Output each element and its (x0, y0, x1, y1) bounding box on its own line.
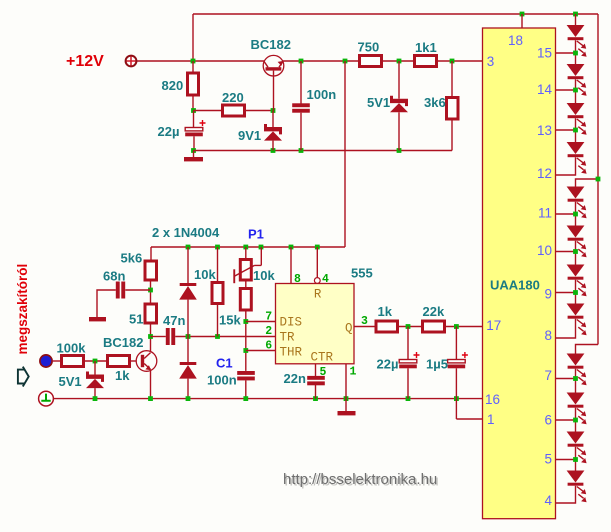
svg-text:1µ5: 1µ5 (426, 357, 448, 372)
wire node to C22u (193, 111, 195, 128)
wire UAA180 pin1 to ground rail (456, 399, 482, 419)
potentiometer P1 wiper arrow (234, 247, 261, 276)
svg-text:BC182: BC182 (103, 335, 143, 350)
svg-text:820: 820 (162, 78, 184, 93)
junction pin18 on top rail (520, 12, 525, 17)
svg-text:16: 16 (485, 392, 500, 407)
wire TR wire to D2 (187, 337, 189, 363)
wire D12 to D13 (575, 408, 577, 432)
svg-text:UAA180: UAA180 (490, 278, 540, 293)
wire top rail to UAA180 pin 18 (521, 14, 523, 28)
wire rail to LED D3 (575, 14, 577, 25)
wire D3 to D4 (575, 40, 577, 64)
wire to 1u5 (455, 327, 457, 360)
svg-text:R: R (314, 288, 322, 302)
wire pin 10 tap (556, 251, 576, 253)
wire to 22u out (407, 327, 409, 360)
wire top supply rail (193, 13, 598, 15)
wire node to ground bar (193, 151, 195, 158)
junction 5V1 bottom (397, 148, 402, 153)
svg-text:+12V: +12V (66, 53, 104, 70)
LED D4 (567, 64, 585, 76)
wire 9V1 to node (272, 141, 274, 151)
capacitor 47n (166, 328, 170, 345)
junction DIS tap (243, 319, 248, 324)
junction THR tap (243, 348, 248, 353)
junction 1u5 top (454, 324, 459, 329)
junction 22n ground (313, 396, 318, 401)
svg-text:5V1: 5V1 (367, 95, 390, 110)
LED D11 (567, 354, 585, 366)
transistor Q1 BC182 (263, 55, 284, 76)
LED D10 (567, 304, 585, 316)
svg-text:Q: Q (345, 322, 353, 336)
junction pin9 tap (573, 290, 578, 295)
junction 22u bottom node (191, 148, 196, 153)
junction 5V1 top (397, 59, 402, 64)
junction timing-rail drop (343, 59, 348, 64)
junction 555 pin4 (315, 245, 320, 250)
wire right rail feed group 3 (576, 345, 599, 354)
svg-text:14: 14 (537, 82, 553, 97)
wire +12V to transistor emitter (137, 60, 264, 62)
wire 68n to ground (97, 290, 116, 317)
svg-text:11: 11 (538, 206, 552, 221)
ground bar below 68n (89, 317, 106, 321)
LED D8 (567, 226, 585, 238)
wire pin 7 tap (556, 378, 576, 380)
wire 22u to ground rail (407, 368, 409, 398)
wire oscillator supply rail (151, 246, 345, 248)
resistor R1k3 1k output (376, 321, 398, 332)
wire D13 to D14 (575, 447, 577, 471)
junction 9V1 bottom (271, 148, 276, 153)
IC UAA180 body (483, 28, 556, 519)
svg-text:100n: 100n (307, 87, 337, 102)
wire left drop from top rail (192, 14, 194, 61)
wire 555 pin 5 to 22n (315, 364, 317, 377)
wire junction to 47n (151, 336, 166, 338)
wire rail to 555 pin 8 (290, 247, 292, 284)
svg-text:2 x 1N4004: 2 x 1N4004 (152, 225, 220, 240)
svg-text:17: 17 (486, 318, 501, 333)
junction pin6 tap (573, 418, 578, 423)
junction input clamp node (93, 359, 98, 364)
resistor R22k 22k (423, 321, 445, 332)
wire pin 6 tap (556, 419, 576, 421)
resistor R3k6 3k6 (447, 98, 459, 120)
junction P1 wiper tie (259, 245, 264, 250)
LED D5 (567, 103, 585, 115)
wire 5V1 to node (398, 112, 400, 150)
wire node to 9V1 (272, 111, 274, 128)
svg-text:10: 10 (537, 243, 552, 258)
junction R10k top (215, 245, 220, 250)
junction C1 ground (243, 396, 248, 401)
wire C22u to lower node (193, 136, 195, 150)
capacitor 22n (307, 376, 325, 380)
wire R1k to Q2 base (131, 360, 136, 362)
junction P1 top (243, 245, 248, 250)
svg-text:6: 6 (265, 340, 272, 353)
zener diode 5V1 bottom (86, 372, 104, 382)
junction 68n tap (148, 288, 153, 293)
capacitor 1u5 electrolytic (448, 360, 466, 363)
wire Q1 base down (273, 71, 275, 111)
svg-text:1k: 1k (115, 368, 130, 383)
diode D1 1N4004 (180, 283, 197, 286)
svg-text:C1: C1 (216, 356, 233, 371)
junction R10k bottom on TR wire (215, 334, 220, 339)
junction 555 pin1 ground (344, 396, 349, 401)
svg-text:9V1: 9V1 (238, 128, 261, 143)
wire 3k6 down to node 150 (451, 121, 453, 151)
LED D13 (567, 432, 585, 444)
LED D12 (567, 393, 585, 405)
wire pin 14 tap (556, 89, 576, 91)
svg-text:DIS: DIS (280, 316, 303, 330)
wire 555 Q out to R1k (354, 326, 375, 328)
zener diode 5V1 top (390, 96, 408, 106)
svg-text:1k: 1k (378, 304, 393, 319)
junction 100n bottom (299, 148, 304, 153)
junction right rail group2 feed (596, 177, 601, 182)
resistor R51 51 (145, 304, 157, 323)
wire rail to P1 (245, 247, 247, 258)
junction pin11 tap (573, 212, 578, 217)
resistor R15k 15k (240, 289, 251, 311)
wire pin 13 tap (556, 129, 576, 131)
LED D14 (567, 471, 585, 483)
555 pin4 inversion circle (314, 278, 320, 284)
svg-text:2: 2 (265, 325, 272, 338)
svg-text:22µ: 22µ (377, 357, 399, 372)
wire input terminal to R100k (52, 360, 60, 362)
capacitor 68n (116, 282, 120, 299)
svg-text:750: 750 (358, 40, 380, 55)
wire node to 5V1 bottom (94, 361, 96, 375)
wire rail to 555 pin 4 (316, 247, 318, 278)
wire R5k6 to R51 (150, 282, 152, 303)
svg-text:7: 7 (265, 311, 272, 324)
wire D6 to pin 12 (556, 157, 576, 175)
LED D7 (567, 187, 585, 199)
junction R51/47n/collector (148, 334, 153, 339)
svg-text:18: 18 (508, 33, 523, 48)
svg-text:THR: THR (280, 346, 303, 360)
LED D6 (567, 142, 585, 154)
wire junction to R820 (192, 61, 194, 72)
wire DIS to 555 pin 7 (246, 321, 276, 323)
svg-text:220: 220 (222, 90, 244, 105)
wire R10k to TR wire (217, 305, 219, 337)
junction R820/22u/220 node (191, 108, 196, 113)
wire ground rail (54, 398, 483, 400)
IC 555 body (276, 284, 355, 364)
wire D5 to D6 (575, 118, 577, 142)
wire pin 11 tap (556, 213, 576, 215)
wire 22n to ground rail (315, 385, 317, 399)
wire D1 to TR wire (187, 300, 189, 337)
junction 100n top (299, 59, 304, 64)
svg-text:9: 9 (544, 287, 552, 302)
svg-text:BC182: BC182 (251, 37, 291, 52)
svg-text:megszakítóról: megszakítóról (15, 264, 30, 355)
resistor R1k2 1k (108, 356, 130, 367)
wire 5V1 to ground rail (94, 388, 96, 399)
wire R1k1 to UAA180 pin 3 (438, 60, 483, 62)
svg-text:22k: 22k (423, 304, 445, 319)
wire drop to oscillator rail (344, 61, 346, 247)
junction 555 pin8 (289, 245, 294, 250)
junction base/9V1 node (271, 108, 276, 113)
svg-text:8: 8 (294, 273, 301, 286)
junction pin5 tap (573, 457, 578, 462)
wire R15k down through DIS/THR taps (245, 312, 247, 371)
wire 100n to node (300, 113, 302, 151)
svg-text:1: 1 (487, 412, 495, 427)
junction pin15 tap (573, 51, 578, 56)
wire D4 to D5 (575, 79, 577, 103)
wire rail corner to R5k6 (150, 247, 152, 260)
capacitor C22u 22µ electrolytic (185, 128, 203, 131)
junction pin13 tap (573, 128, 578, 133)
wire 68n to junction (125, 289, 150, 291)
wire 47n to 555 TR pin 2 (175, 336, 275, 338)
wire transistor collector to R750 (283, 60, 358, 62)
svg-text:4: 4 (544, 493, 552, 508)
wire THR to 555 pin 6 (246, 350, 276, 352)
svg-text:15: 15 (537, 46, 552, 61)
wire rail to R10k (217, 247, 219, 281)
wire R51 to Q2 collector (150, 325, 152, 352)
wire D10 to pin 8 (556, 319, 576, 338)
capacitor C1 100n (237, 371, 255, 375)
svg-text:6: 6 (544, 413, 552, 428)
wire D8 to D9 (575, 241, 577, 265)
junction diode D1 top (186, 245, 191, 250)
wire internal supply node 150 (194, 150, 453, 152)
svg-text:4: 4 (322, 273, 329, 286)
junction D2 ground (186, 396, 191, 401)
ground bar below 22u (184, 157, 203, 161)
junction 5V1 ground (93, 396, 98, 401)
svg-text:TR: TR (280, 331, 296, 345)
diode D2 1N4004 (180, 362, 197, 365)
wire 1u5 to ground rail (455, 368, 457, 398)
svg-text:7: 7 (544, 368, 552, 383)
wire D14 to pin 4 (556, 486, 576, 503)
LED D9 (567, 265, 585, 277)
ground bar below 555 pin1 (338, 411, 356, 415)
zener diode 9V1 (264, 124, 282, 134)
wire D2 to ground rail (187, 379, 189, 399)
input direction arrow (18, 370, 25, 384)
resistor R820 820 (188, 73, 199, 95)
wire rail to 100n (300, 61, 302, 104)
wire R100k to R1k (85, 360, 106, 362)
junction pin7 tap (573, 376, 578, 381)
terminal input blue (40, 355, 52, 367)
wire pin 5 tap (556, 459, 576, 461)
wire right LED supply rail (597, 14, 599, 345)
wire D9 to D10 (575, 280, 577, 304)
svg-text:22µ: 22µ (158, 124, 180, 139)
resistor R100k 100k (62, 356, 84, 367)
svg-text:100k: 100k (57, 341, 87, 356)
svg-text:555: 555 (351, 266, 373, 281)
junction +12V rail drop (191, 59, 196, 64)
svg-text:15k: 15k (219, 313, 241, 328)
wire rail to D1 (187, 247, 189, 283)
wire R750 to R1k1 (383, 60, 413, 62)
svg-text:10k: 10k (194, 267, 216, 282)
svg-text:47n: 47n (163, 313, 185, 328)
svg-text:12: 12 (537, 166, 552, 181)
LED D3 (567, 25, 585, 37)
junction 3k6 top (450, 59, 455, 64)
svg-text:10k: 10k (253, 268, 275, 283)
svg-text:3k6: 3k6 (424, 95, 446, 110)
resistor R1k1 1k1 (415, 56, 437, 67)
transistor Q2 BC182 (136, 351, 157, 372)
svg-text:13: 13 (537, 123, 552, 138)
junction Q2 emitter ground (148, 396, 153, 401)
wire rail to 5V1 (398, 61, 400, 99)
wire pin 9 tap (556, 292, 576, 294)
wire D11 to D12 (575, 369, 577, 393)
potentiometer P1 10k body (240, 260, 251, 281)
svg-text:1k1: 1k1 (415, 40, 437, 55)
junction pin10 tap (573, 249, 578, 254)
capacitor 100n top (292, 103, 310, 107)
svg-text:5k6: 5k6 (121, 251, 143, 266)
svg-text:51: 51 (129, 312, 143, 327)
wire node to R220 (194, 110, 222, 112)
wire R1k to R22k (399, 326, 421, 328)
junction 1u5 ground (454, 396, 459, 401)
svg-text:CTR: CTR (311, 351, 334, 365)
terminal +12V supply (126, 56, 137, 67)
capacitor 22u output electrolytic (399, 360, 417, 363)
junction pin14 tap (573, 88, 578, 93)
svg-text:http://bsselektronika.hu: http://bsselektronika.hu (283, 471, 437, 488)
wire rail to 3k6 (451, 61, 453, 96)
wire Q2 emitter to ground rail (150, 370, 152, 399)
terminal ground (39, 391, 54, 406)
wire right rail feed group 2 (576, 179, 599, 187)
resistor R10k 10k (212, 283, 223, 304)
wire R22k to UAA180 pin 17 (446, 326, 483, 328)
svg-text:22n: 22n (284, 371, 306, 386)
svg-text:8: 8 (544, 328, 552, 343)
junction 22u out top (406, 324, 411, 329)
wire R820 to node (192, 97, 194, 111)
wire R220 to 9V1 node (246, 110, 273, 112)
svg-text:5: 5 (544, 452, 552, 467)
junction 22u out ground (406, 396, 411, 401)
svg-text:3: 3 (487, 54, 495, 69)
resistor R750 750 (360, 56, 382, 67)
resistor R5k6 5k6 (145, 261, 157, 280)
junction LED chain top (573, 12, 578, 17)
svg-text:5V1: 5V1 (59, 374, 82, 389)
wire P1 to R15k (245, 282, 247, 288)
wire 555 pin 1 to ground (345, 364, 347, 411)
wire D7 to D8 (575, 202, 577, 226)
svg-text:P1: P1 (248, 227, 264, 242)
svg-text:1: 1 (350, 366, 357, 379)
wire pin 15 tap (556, 52, 576, 54)
svg-text:100n: 100n (207, 373, 237, 388)
svg-text:68n: 68n (103, 269, 125, 284)
resistor R220 220 (223, 105, 245, 116)
wire C1 to ground rail (245, 380, 247, 398)
junction diode line on TR wire (186, 334, 191, 339)
